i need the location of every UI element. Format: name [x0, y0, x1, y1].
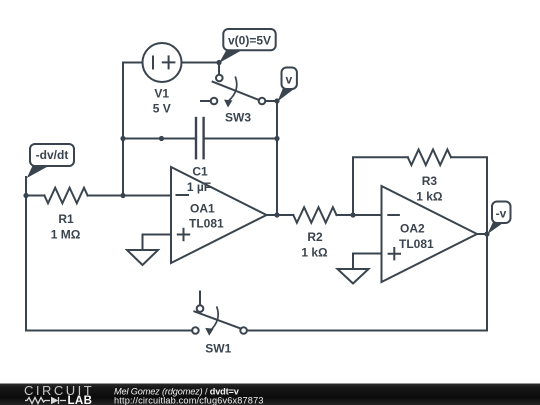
svg-text:-v: -v: [496, 207, 507, 221]
svg-text:OA2: OA2: [400, 222, 425, 236]
svg-text:LAB: LAB: [68, 395, 93, 405]
svg-text:TL081: TL081: [399, 237, 434, 251]
svg-text:v(0)=5V: v(0)=5V: [228, 34, 271, 48]
svg-text:5 V: 5 V: [153, 102, 171, 116]
svg-text:R1: R1: [58, 212, 74, 226]
svg-text:http://circuitlab.com/cfug6v6x: http://circuitlab.com/cfug6v6x87873: [114, 395, 264, 405]
svg-text:R3: R3: [422, 174, 438, 188]
svg-text:1 MΩ: 1 MΩ: [51, 228, 81, 242]
svg-text:R2: R2: [307, 230, 323, 244]
svg-text:1 kΩ: 1 kΩ: [416, 189, 443, 203]
svg-text:-dv/dt: -dv/dt: [36, 148, 69, 162]
svg-text:1 µF: 1 µF: [187, 180, 211, 194]
svg-text:TL081: TL081: [189, 217, 224, 231]
svg-text:V1: V1: [154, 87, 169, 101]
svg-text:C1: C1: [192, 164, 208, 178]
svg-text:v: v: [285, 73, 292, 87]
svg-text:SW3: SW3: [225, 111, 251, 125]
svg-text:SW1: SW1: [205, 341, 231, 355]
svg-text:OA1: OA1: [190, 202, 215, 216]
svg-text:1 kΩ: 1 kΩ: [301, 246, 328, 260]
